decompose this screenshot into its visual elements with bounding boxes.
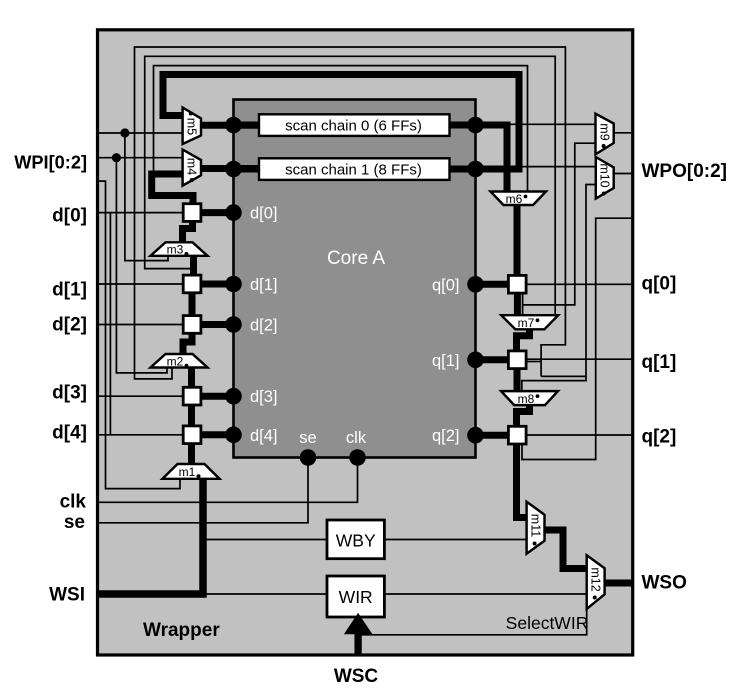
wire m9 output to WPO bbox=[614, 132, 632, 134]
svg-text:d[2]: d[2] bbox=[52, 315, 87, 336]
wire q[1] output line bbox=[527, 358, 632, 360]
wire se line bbox=[99, 458, 308, 523]
svg-text:WPI[0:2]: WPI[0:2] bbox=[14, 152, 87, 172]
wire q[0] output line bbox=[527, 283, 632, 285]
svg-text:m1: m1 bbox=[179, 465, 196, 479]
node core left d1 bbox=[225, 276, 242, 293]
svg-text:d[2]: d[2] bbox=[250, 317, 278, 335]
wire q1 cell to m8 bbox=[514, 368, 521, 391]
svg-text:m4: m4 bbox=[185, 158, 199, 175]
mux m9 bbox=[596, 114, 614, 155]
wire m10 output to WPO bbox=[614, 173, 632, 175]
wire d1 cell to m3 bbox=[190, 256, 197, 276]
wire scan0 out to m6 bbox=[449, 125, 508, 192]
svg-text:q[2]: q[2] bbox=[432, 427, 460, 445]
wire q2 cell to m11 bbox=[517, 444, 527, 518]
node core se bbox=[300, 449, 317, 466]
wire node2 to m2 select bbox=[116, 158, 167, 373]
wire core q[2] port to cell bbox=[476, 432, 509, 439]
core A box bbox=[234, 100, 476, 458]
wire m3 to d0 cell zigzag bbox=[183, 219, 193, 243]
mux m6 bbox=[491, 192, 547, 206]
svg-text:WSC: WSC bbox=[334, 666, 379, 687]
svg-text:clk: clk bbox=[346, 429, 367, 447]
wire WBY input tap bbox=[203, 539, 327, 541]
wire node1 to m3 select bbox=[125, 133, 168, 261]
svg-text:WIR: WIR bbox=[339, 587, 373, 607]
WIR register box bbox=[327, 576, 384, 617]
wrapper cell d1 bbox=[183, 275, 201, 293]
wire clk line bbox=[99, 458, 358, 503]
wire scan1 box out bbox=[449, 166, 481, 173]
node core left scan0 in bbox=[225, 117, 242, 134]
wrapper cell d3 bbox=[183, 387, 201, 405]
wire WPI bit2 to m1 select bbox=[99, 181, 180, 489]
mux m5 bbox=[183, 108, 201, 145]
WBY register box bbox=[327, 520, 384, 559]
wire m4 output to scan chain 1 bbox=[201, 165, 262, 172]
mux m10 bbox=[596, 157, 614, 199]
wire net A q1-cell to m2 bbox=[135, 47, 566, 379]
svg-text:m7: m7 bbox=[518, 316, 535, 330]
wire scan1 out riser over top to m5 bbox=[163, 75, 519, 170]
mux m1 bbox=[163, 464, 220, 479]
mux m8 bbox=[501, 391, 558, 405]
mux m4 bbox=[183, 150, 201, 186]
svg-text:Core A: Core A bbox=[327, 248, 385, 269]
svg-text:m5: m5 bbox=[185, 118, 199, 135]
wrapper cell d4 bbox=[183, 426, 201, 444]
mux m3 bbox=[151, 242, 208, 256]
wire m5 output to scan chain 0 bbox=[201, 122, 262, 129]
wire d[0] input line bbox=[99, 212, 183, 214]
wire scan1 box in bbox=[234, 166, 263, 173]
wire WSI to WIR bbox=[203, 593, 327, 595]
wire net B m7 to m3 bbox=[145, 56, 556, 315]
node core left d0 bbox=[225, 204, 242, 221]
wire d[2] cell to core port bbox=[201, 321, 234, 328]
scan chain 0 box bbox=[259, 114, 450, 136]
node core left d3 bbox=[225, 388, 242, 405]
wrapper cell q0 bbox=[508, 275, 526, 293]
wire WIR output to m12 bbox=[384, 593, 586, 595]
wire WSI thick to m1 bbox=[99, 479, 203, 594]
mux m7 bbox=[501, 315, 558, 329]
WSC input arrow bbox=[354, 630, 361, 655]
svg-text:m12: m12 bbox=[589, 567, 603, 591]
wire core q[0] port to cell bbox=[476, 281, 509, 288]
svg-text:m3: m3 bbox=[167, 243, 184, 257]
wrapper cell q1 bbox=[508, 351, 526, 369]
wire vertical d0 branch bbox=[109, 213, 111, 435]
svg-text:q[0]: q[0] bbox=[642, 273, 677, 294]
wire q0 cell to m7 bbox=[514, 293, 521, 316]
wire scan0 box in bbox=[234, 122, 263, 129]
wire q1 branch to m10 vertical bbox=[541, 375, 586, 377]
svg-text:m11: m11 bbox=[528, 514, 542, 537]
node core right q2 bbox=[467, 427, 484, 444]
wire WPI bit0 input line bbox=[99, 132, 183, 134]
node WPI bit1 junction bbox=[112, 153, 121, 162]
wire q2 cell to WPO line bbox=[522, 218, 632, 459]
svg-text:q[1]: q[1] bbox=[642, 352, 677, 373]
node core left d2 bbox=[225, 316, 242, 333]
wire d[1] cell to core port bbox=[201, 281, 234, 288]
svg-text:scan chain 0 (6 FFs): scan chain 0 (6 FFs) bbox=[285, 118, 422, 135]
svg-text:se: se bbox=[64, 512, 85, 533]
svg-text:m9: m9 bbox=[597, 123, 611, 140]
wire d4 cell to d3 cell bbox=[188, 405, 195, 426]
wire d[3] cell to core port bbox=[201, 393, 234, 400]
svg-text:q[0]: q[0] bbox=[432, 276, 460, 294]
node core left d4 bbox=[225, 427, 242, 444]
node core left scan1 in bbox=[225, 161, 242, 178]
wire m8 to q2 cell zigzag bbox=[517, 405, 530, 427]
svg-text:scan chain 1 (8 FFs): scan chain 1 (8 FFs) bbox=[285, 162, 422, 179]
wire net C m6 to m4 area bbox=[154, 66, 528, 192]
svg-text:m8: m8 bbox=[518, 392, 535, 406]
wire scan chain 0 feedback to m9 bbox=[478, 123, 596, 125]
svg-text:Wrapper: Wrapper bbox=[143, 620, 220, 641]
node core right scan1 out bbox=[467, 161, 484, 178]
mux m12 bbox=[587, 555, 605, 609]
mux m2 bbox=[151, 354, 208, 368]
wire m8 stub to m10 bbox=[522, 185, 596, 392]
wire d[1] input line bbox=[99, 283, 183, 285]
svg-text:WBY: WBY bbox=[336, 530, 376, 550]
svg-text:d[0]: d[0] bbox=[250, 205, 278, 223]
wire q[2] output line bbox=[527, 434, 632, 436]
wire WPI bit1 input line bbox=[99, 157, 183, 159]
wire net A stub to q1 cell bbox=[527, 361, 542, 363]
wire d[2] input line bbox=[99, 324, 183, 326]
svg-text:WPO[0:2]: WPO[0:2] bbox=[642, 161, 728, 182]
wrapper boundary box bbox=[98, 30, 633, 655]
wire core q[1] port to cell bbox=[476, 356, 509, 363]
node core right scan0 out bbox=[467, 117, 484, 134]
mux m11 bbox=[527, 502, 545, 554]
wire d[4] input line bbox=[99, 434, 183, 436]
wire d[0] cell to core port bbox=[201, 209, 234, 216]
svg-text:d[1]: d[1] bbox=[250, 276, 278, 294]
svg-text:m6: m6 bbox=[506, 192, 523, 206]
node core right q0 bbox=[467, 276, 484, 293]
wrapper cell q2 bbox=[508, 426, 526, 444]
wire m7 to q1 cell zigzag bbox=[517, 329, 530, 351]
svg-text:WSO: WSO bbox=[642, 573, 687, 594]
wire WBY output to m11 bbox=[384, 539, 526, 541]
svg-text:d[1]: d[1] bbox=[52, 280, 87, 301]
scan chain 1 box bbox=[259, 158, 450, 180]
svg-text:clk: clk bbox=[60, 492, 87, 513]
wire m1 to d4 cell bbox=[188, 444, 195, 465]
wrapper cell d2 bbox=[183, 316, 201, 334]
svg-text:se: se bbox=[299, 429, 316, 447]
svg-text:m10: m10 bbox=[598, 163, 612, 187]
wire scan chain 1 feedback to m10 bbox=[478, 166, 596, 168]
wire d2 cell to d1 cell bbox=[189, 293, 196, 316]
svg-text:q[2]: q[2] bbox=[642, 426, 677, 447]
svg-text:d[4]: d[4] bbox=[52, 423, 87, 444]
node WPI bit0 junction bbox=[120, 128, 129, 137]
svg-text:d[3]: d[3] bbox=[250, 388, 278, 406]
svg-text:d[0]: d[0] bbox=[52, 206, 87, 227]
wire SelectWIR to m12 bbox=[362, 609, 587, 635]
svg-text:WSI: WSI bbox=[49, 584, 85, 605]
svg-text:q[1]: q[1] bbox=[432, 352, 460, 370]
wire d0 cell to m4 zigzag bbox=[152, 174, 193, 204]
wrapper cell d0 bbox=[183, 204, 201, 222]
svg-text:SelectWIR: SelectWIR bbox=[506, 613, 589, 633]
wire m12 output WSO bbox=[605, 580, 632, 587]
wire m6 output to q0 cell bbox=[514, 205, 521, 276]
wire m11 output to m12 bbox=[545, 530, 587, 569]
wire d[4] cell to core port bbox=[201, 431, 234, 438]
node core clk bbox=[349, 449, 366, 466]
wire q0 cell to m9 bbox=[522, 293, 524, 315]
svg-text:d[3]: d[3] bbox=[52, 383, 87, 404]
svg-text:d[4]: d[4] bbox=[250, 427, 278, 445]
wire m2 to d2 cell zigzag bbox=[183, 333, 192, 354]
wire d[3] input line bbox=[99, 395, 183, 397]
node core right q1 bbox=[467, 352, 484, 369]
svg-text:m2: m2 bbox=[167, 354, 184, 368]
wire d3 cell to m2 bbox=[188, 367, 195, 387]
